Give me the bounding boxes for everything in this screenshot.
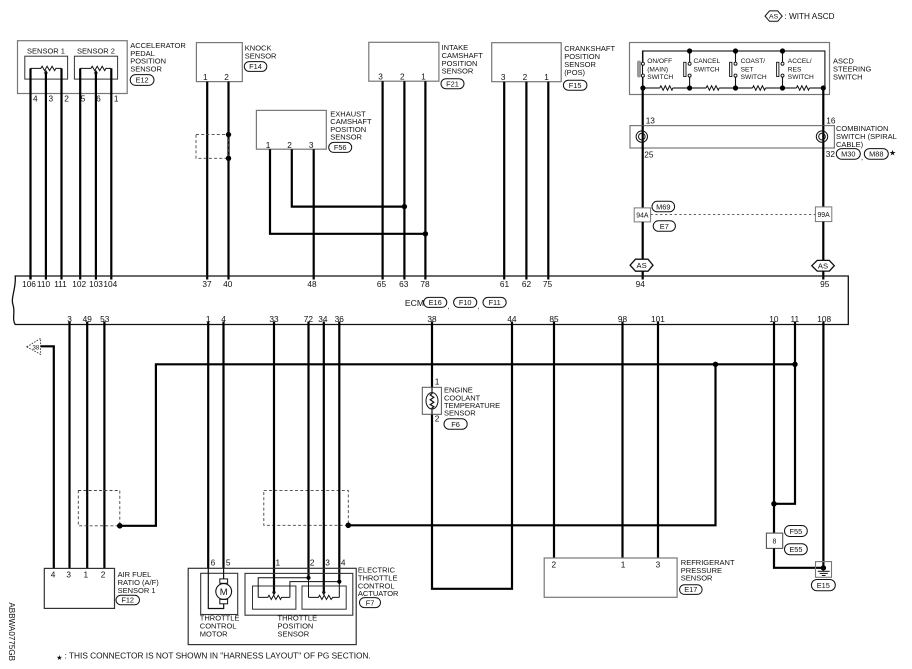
connector oval F7 (360, 598, 381, 608)
svg-text:61: 61 (500, 279, 510, 289)
svg-text:SENSOR: SENSOR (681, 574, 713, 583)
connector oval F21 (441, 79, 464, 89)
wire F56 pin3 to ECM 48 (313, 149, 315, 279)
svg-text:ON/OFF: ON/OFF (647, 58, 672, 65)
svg-text:ACCEL/: ACCEL/ (788, 58, 812, 65)
svg-text:2: 2 (64, 94, 69, 104)
svg-text:32: 32 (826, 149, 836, 159)
wire ECT sensor pin 2 loop to ECM 44 (432, 322, 512, 589)
svg-text:4: 4 (33, 94, 38, 104)
wire E12 pin6 wiper to ECM 103 (95, 73, 97, 280)
svg-text:★: ★ (56, 653, 62, 662)
ASCD steering switch assembly (630, 43, 872, 95)
wire F15 pin2 to ECM 62 (525, 82, 527, 280)
svg-text:3: 3 (378, 72, 383, 82)
svg-text:6: 6 (211, 557, 216, 567)
wire ECM 10 to connector 8 (773, 322, 775, 534)
ECM top row pin labels (22, 279, 830, 289)
svg-text:104: 104 (103, 279, 117, 289)
svg-text:(MAIN): (MAIN) (647, 66, 668, 73)
connector oval M30 (836, 149, 863, 162)
svg-text:37: 37 (202, 279, 212, 289)
connector oval E7 (653, 221, 675, 232)
knock sensor F14 (196, 43, 277, 82)
connector oval F6 (444, 419, 467, 430)
svg-text:CABLE): CABLE) (836, 140, 864, 149)
svg-text:E15: E15 (817, 581, 830, 590)
shield drain wire to common shield bus (120, 364, 795, 526)
connector oval E55 (785, 544, 808, 555)
svg-text:1: 1 (275, 557, 280, 567)
refrigerant pressure sensor E17 (544, 558, 735, 597)
resistor R2 on rail (706, 87, 719, 90)
svg-text:4: 4 (51, 570, 56, 580)
shield drain node AF (117, 523, 123, 529)
rail junction nodes top (687, 48, 692, 53)
wire pin 25 to connector 94A (642, 148, 644, 208)
svg-text:SWITCH: SWITCH (647, 74, 673, 81)
svg-text:SWITCH: SWITCH (788, 74, 814, 81)
wire F21 pin1 to ECM 78 (424, 81, 426, 279)
wire F14 pin1 to ECM 37 (206, 82, 208, 280)
svg-text:SENSOR: SENSOR (444, 409, 476, 418)
resistor R1 on rail (660, 87, 673, 90)
svg-text:F21: F21 (446, 79, 459, 88)
svg-text:(POS): (POS) (564, 68, 585, 77)
potentiometer sensor 2 (80, 66, 111, 73)
throttle position sensor box (245, 573, 353, 638)
ground E15 (816, 562, 832, 578)
wire F56 pin1 to node on wire 78 (270, 149, 425, 234)
svg-text:1: 1 (421, 72, 426, 82)
ECM top edge pin stubs (29, 276, 31, 280)
wire ECM 33 to TPS pin 1 (273, 322, 275, 593)
svg-text:SENSOR 2: SENSOR 2 (77, 47, 115, 56)
svg-text:3: 3 (325, 557, 330, 567)
svg-text:M88: M88 (869, 150, 883, 159)
connector oval F10 (454, 297, 480, 310)
wire ECM 98 to refrigerant sensor pin 1 (621, 322, 623, 559)
ground sensor return node triangle 38 (27, 338, 41, 354)
svg-text:95: 95 (820, 279, 830, 289)
svg-text:SWITCH: SWITCH (741, 74, 767, 81)
svg-text:25: 25 (644, 150, 654, 160)
wire E12 pin1 to ECM 104 (110, 68, 112, 279)
junction node F56 pin2 / wire 63 (402, 204, 407, 209)
wire ASCD to combination switch pin 13 (642, 88, 644, 126)
AS hexagon left (630, 259, 653, 271)
cancel switch (684, 51, 721, 88)
svg-text:1: 1 (83, 570, 88, 580)
rail junction nodes bottom (640, 85, 645, 90)
resistor R4 on rail (796, 87, 809, 90)
svg-text:,: , (448, 301, 450, 310)
svg-text:ABBWA0775GB: ABBWA0775GB (7, 602, 16, 661)
E12 name text (130, 41, 186, 73)
node TPS pin 4 (337, 580, 341, 584)
svg-text:: WITH ASCD: : WITH ASCD (785, 12, 835, 21)
TPS supply link pin 2 (258, 578, 308, 598)
svg-text:99A: 99A (817, 212, 830, 219)
connector oval F11 (483, 297, 506, 307)
node TPS pin 2 (306, 576, 310, 580)
engine coolant temperature sensor F6 (422, 377, 500, 424)
svg-text:3: 3 (656, 560, 661, 570)
svg-text:1: 1 (435, 377, 440, 387)
svg-text:16: 16 (826, 115, 836, 125)
svg-text:E17: E17 (684, 585, 697, 594)
wire F56 pin2 to node on wire 63 (292, 149, 405, 206)
svg-text:F15: F15 (569, 81, 582, 90)
wire through spiral cable right (822, 126, 824, 148)
accel/res switch (777, 51, 814, 88)
connector oval F12 (116, 595, 140, 605)
svg-text:SENSOR: SENSOR (245, 51, 277, 60)
connector terminal 94A (634, 208, 650, 222)
ECM bottom edge pin stubs (68, 322, 70, 325)
TPS wiper arrow pin 3 (322, 592, 326, 596)
wire ECM 4 to actuator pin 5 (222, 322, 224, 569)
svg-text:1: 1 (114, 94, 119, 104)
TPS element 2 housing (302, 586, 346, 609)
TPS wiper arrow pin 1 (272, 592, 276, 596)
svg-text:63: 63 (399, 279, 409, 289)
svg-text:78: 78 (420, 279, 430, 289)
svg-text:62: 62 (522, 279, 532, 289)
combination switch (spiral cable) (630, 124, 897, 149)
svg-text:102: 102 (72, 279, 86, 289)
wire ECM 49 to AF sensor pin 1 (86, 322, 88, 569)
svg-text:SENSOR: SENSOR (442, 67, 474, 76)
spiral cable symbol right (816, 131, 827, 142)
svg-text:ECM: ECM (405, 298, 424, 308)
svg-text:MOTOR: MOTOR (200, 629, 228, 638)
TPS resistor element 2 (309, 595, 340, 599)
wire E12 pin3 wiper to ECM 110 (45, 73, 47, 280)
wire ECM 11 joining wire 10 (774, 322, 795, 504)
resistor R3 on rail (753, 87, 766, 90)
motor wiring pin 5 (223, 568, 225, 579)
exhaust camshaft position sensor F56 (256, 109, 372, 150)
crankshaft position sensor F15 (492, 43, 616, 82)
wire E12 pin2 to ECM 111 (60, 68, 62, 279)
svg-text:COAST/: COAST/ (741, 58, 766, 65)
svg-text:M69: M69 (656, 202, 670, 211)
motor M symbol (216, 579, 232, 604)
svg-text:5: 5 (226, 557, 231, 567)
ECM bottom row pin labels (67, 314, 831, 324)
connector terminal 99A (815, 207, 831, 222)
svg-text:3: 3 (501, 72, 506, 82)
svg-text:SENSOR 1: SENSOR 1 (118, 586, 156, 595)
spiral cable symbol left (636, 131, 647, 142)
svg-text:75: 75 (543, 279, 553, 289)
svg-text:106: 106 (22, 279, 36, 289)
svg-text:F56: F56 (334, 143, 347, 152)
svg-text:38: 38 (33, 346, 40, 352)
svg-text:SENSOR: SENSOR (278, 629, 310, 638)
svg-text:: THIS CONNECTOR IS NOT SHOWN: : THIS CONNECTOR IS NOT SHOWN IN "HARNES… (65, 650, 371, 660)
svg-text:2: 2 (435, 414, 440, 424)
wire AS hexagon right to ECM 95 (822, 271, 824, 279)
svg-text:2: 2 (310, 557, 315, 567)
wire ECM 36 to TPS pin 4 (338, 322, 340, 582)
accelerator pedal position sensor E12 (18, 41, 128, 94)
svg-text:E16: E16 (429, 298, 442, 307)
svg-text:E7: E7 (660, 222, 669, 231)
svg-text:4: 4 (341, 557, 346, 567)
svg-text:,: , (861, 152, 863, 161)
junction node F56 pin1 / wire 78 (423, 231, 428, 236)
svg-text:103: 103 (89, 279, 103, 289)
svg-text:110: 110 (37, 279, 51, 289)
svg-text:F14: F14 (249, 62, 262, 71)
wire ECM 101 to refrigerant sensor pin 3 (657, 322, 659, 559)
svg-text:★: ★ (889, 149, 896, 158)
svg-text:SENSOR 1: SENSOR 1 (27, 47, 65, 56)
svg-text:8: 8 (772, 539, 776, 546)
connector oval F56 (329, 142, 352, 152)
connector oval E15 (811, 580, 835, 591)
wire ECM 1 to actuator pin 6 (207, 322, 209, 569)
TPS return link pin 4 (290, 582, 339, 598)
svg-text:SENSOR: SENSOR (330, 133, 362, 142)
shield bus end node at wire 11 (792, 362, 797, 367)
intake camshaft position sensor F21 (369, 42, 483, 81)
wire through spiral cable left (642, 126, 644, 148)
electric throttle control actuator F7 (188, 557, 399, 644)
TPS resistor element 1 (258, 595, 290, 599)
svg-text:SWITCH: SWITCH (833, 73, 863, 82)
shield bus branch to TPS shield (348, 364, 715, 525)
connector oval F55 (785, 526, 808, 537)
svg-text:RES: RES (788, 66, 802, 73)
svg-text:3: 3 (66, 570, 71, 580)
svg-text:2: 2 (551, 560, 556, 570)
svg-text:M30: M30 (841, 150, 855, 159)
dashed connector link 94A-99A (651, 214, 816, 216)
svg-text:1: 1 (544, 72, 549, 82)
knock sensor cable shield (dashed) (196, 135, 229, 159)
ECM connector box E16 F10 F11 (12, 276, 848, 325)
wire F15 pin1 to ECM 75 (547, 82, 549, 280)
connector oval F15 (563, 80, 587, 90)
connector oval E16 (424, 297, 450, 310)
wire 99A to AS hexagon right (822, 222, 824, 261)
svg-text:94A: 94A (636, 213, 649, 220)
connector oval E17 (680, 585, 703, 595)
wire F21 pin2 to ECM 63 (403, 81, 405, 279)
svg-text:40: 40 (223, 279, 233, 289)
legend AS hexagon : WITH ASCD (765, 11, 835, 21)
air fuel ratio sensor F12 (44, 568, 159, 608)
wire ECM 3 to AF sensor pin 3 (68, 322, 70, 569)
svg-text:ACTUATOR: ACTUATOR (358, 589, 399, 598)
svg-text:5: 5 (81, 94, 86, 104)
svg-text:2: 2 (101, 570, 106, 580)
svg-text:CANCEL: CANCEL (694, 58, 721, 65)
wire F15 pin3 to ECM 61 (503, 82, 505, 280)
throttle control motor box (200, 573, 240, 638)
svg-text:48: 48 (307, 279, 317, 289)
motor wiring pin 6 (208, 568, 223, 608)
wire ECM 108 to ground E15 (822, 322, 824, 568)
wire ECM 53 to AF sensor pin 2 (103, 322, 105, 569)
svg-text:SWITCH: SWITCH (694, 66, 720, 73)
svg-text:13: 13 (646, 115, 656, 125)
connector oval M69 (652, 201, 675, 212)
wire F14 pin2 to ECM 40 (227, 82, 229, 280)
connector terminal 8 (766, 533, 782, 548)
svg-text:2: 2 (400, 72, 405, 82)
svg-text:1: 1 (266, 140, 271, 150)
wire triangle 38 to AF sensor pin 4 (41, 346, 54, 568)
shield bus T node (713, 362, 718, 367)
wire AS hexagon left to ECM 94 (642, 271, 644, 279)
svg-text:2: 2 (224, 72, 229, 82)
shield junction node bottom (226, 156, 231, 161)
wire connector 8 to ground E15 (774, 548, 823, 567)
svg-text:E12: E12 (136, 76, 149, 85)
AF sensor cable shield (dashed) (78, 491, 120, 526)
svg-text:F10: F10 (459, 298, 472, 307)
svg-text:M: M (220, 587, 228, 598)
svg-text:SET: SET (741, 66, 754, 73)
svg-text:111: 111 (54, 279, 67, 289)
svg-text:94: 94 (636, 279, 646, 289)
wire F21 pin3 to ECM 65 (382, 81, 384, 279)
svg-text:1: 1 (621, 560, 626, 570)
svg-text:F11: F11 (489, 298, 501, 307)
TPS element 1 housing (253, 586, 296, 609)
connector oval M88 (864, 149, 896, 160)
svg-text:F6: F6 (451, 420, 460, 429)
svg-text:F7: F7 (366, 598, 375, 607)
potentiometer sensor 1 (31, 66, 62, 73)
svg-text:AS: AS (637, 261, 647, 270)
svg-text:3: 3 (48, 94, 53, 104)
wire ASCD to combination switch pin 16 (822, 88, 824, 126)
wire E12 pin4 to ECM 106 (29, 68, 31, 279)
junction node wires 10/11 (771, 501, 777, 507)
svg-text:1: 1 (203, 72, 208, 82)
connector oval E12 (130, 75, 154, 86)
svg-text:AS: AS (818, 262, 828, 271)
svg-text:2: 2 (523, 72, 528, 82)
E12 pin labels 4 3 2 5 6 1 (33, 94, 119, 104)
wire E12 pin5 to ECM 102 (79, 68, 81, 279)
svg-text:AS: AS (769, 14, 779, 21)
wire ECM 85 to refrigerant sensor pin 2 (553, 322, 555, 559)
on/off (main) switch (637, 51, 673, 88)
svg-text:,: , (478, 301, 480, 310)
wire ECM 38 to ECT sensor pin 1 (431, 322, 433, 388)
wire ECM 34 to TPS pin 3 (323, 322, 325, 593)
svg-text:3: 3 (309, 140, 314, 150)
svg-text:E55: E55 (789, 545, 802, 554)
svg-text:F55: F55 (790, 527, 803, 536)
TPS cable shield (dashed) (264, 491, 349, 526)
svg-text:SENSOR: SENSOR (130, 64, 162, 73)
svg-text:2: 2 (287, 140, 292, 150)
connector oval F14 (244, 62, 266, 72)
wire 94A to AS hexagon left (642, 222, 644, 259)
shield drain node TPS (346, 523, 352, 529)
shield junction node top (226, 132, 231, 137)
coast/set switch (730, 51, 767, 88)
svg-text:65: 65 (377, 279, 387, 289)
wire pin 32 to connector 99A (822, 148, 824, 207)
svg-text:F12: F12 (121, 596, 134, 605)
AS hexagon right (812, 260, 835, 271)
wire ECM 72 to TPS pin 2 (307, 322, 309, 578)
